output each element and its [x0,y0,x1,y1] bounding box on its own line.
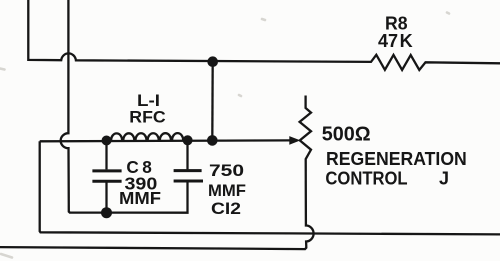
svg-text:750: 750 [209,161,244,180]
svg-text:CONTROL: CONTROL [325,169,407,189]
svg-text:MMF: MMF [208,181,246,200]
svg-text:CI2: CI2 [211,199,241,218]
svg-text:J: J [439,169,449,189]
svg-text:47 K: 47 K [378,31,413,51]
svg-text:RFC: RFC [129,107,165,126]
svg-text:500Ω: 500Ω [322,124,371,146]
svg-text:REGENERATION: REGENERATION [326,149,467,169]
svg-text:MMF: MMF [119,188,161,208]
